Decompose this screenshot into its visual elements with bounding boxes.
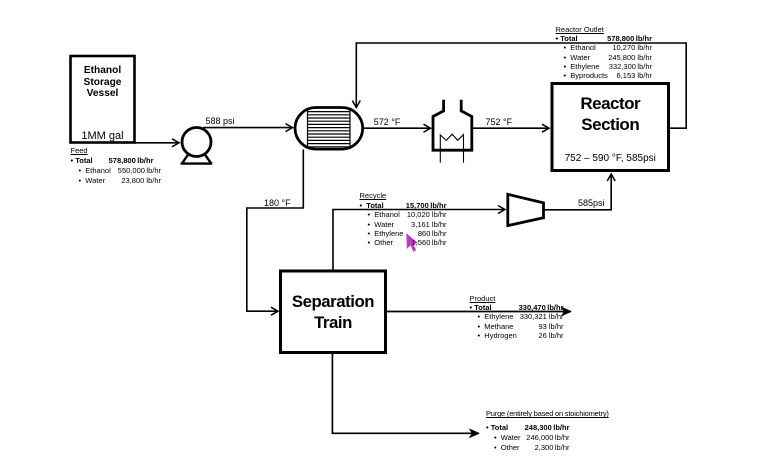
wire: heat exchanger to furnace, 572 F bbox=[363, 127, 431, 129]
separation train box bbox=[281, 271, 386, 353]
wire: separation train purge stream bbox=[332, 353, 479, 434]
vessel capacity label 1MM gal bbox=[71, 130, 135, 142]
vessel: Ethanol Storage Vessel box bbox=[71, 56, 135, 143]
furnace H-1 burner coil bbox=[440, 134, 463, 162]
wire: reactor outlet loop back to heat exchanger top bbox=[356, 43, 686, 128]
stream table: Recycle bbox=[360, 191, 447, 247]
wire: vessel outlet to pump bbox=[135, 142, 179, 144]
mouse cursor bbox=[406, 233, 418, 252]
reactor section title bbox=[552, 93, 669, 135]
vessel title text bbox=[71, 65, 135, 100]
compressor C-1 bbox=[508, 194, 544, 225]
heat exchanger E-1 (shell and tube) bbox=[295, 108, 363, 150]
pump P-1 bbox=[181, 128, 213, 164]
wire: compressor to reactor, 585 psi bbox=[544, 174, 612, 210]
label 588 psi bbox=[206, 116, 235, 126]
wire: heat exchanger cold outlet to separation train, 180 F bbox=[247, 150, 303, 312]
wire: pump discharge to heat exchanger, 588 psi bbox=[203, 127, 293, 129]
stream table: Feed bbox=[71, 146, 162, 186]
stream table: Purge bbox=[486, 409, 570, 452]
furnace H-1 body bbox=[433, 100, 472, 151]
wire: separation train product stream bbox=[386, 311, 572, 313]
reactor section box bbox=[552, 84, 669, 171]
reactor conditions label bbox=[552, 153, 669, 164]
stream table: Reactor Outlet bbox=[556, 25, 653, 81]
wire: separation train recycle to compressor bbox=[333, 210, 505, 272]
label 180 F bbox=[264, 198, 291, 208]
wire: furnace to reactor, 752 F bbox=[472, 127, 549, 129]
label 752 F bbox=[486, 117, 513, 127]
label 572 F bbox=[374, 117, 401, 127]
stream table: Product bbox=[470, 294, 564, 340]
label 585 psi bbox=[578, 198, 605, 208]
separation train title bbox=[281, 292, 386, 333]
